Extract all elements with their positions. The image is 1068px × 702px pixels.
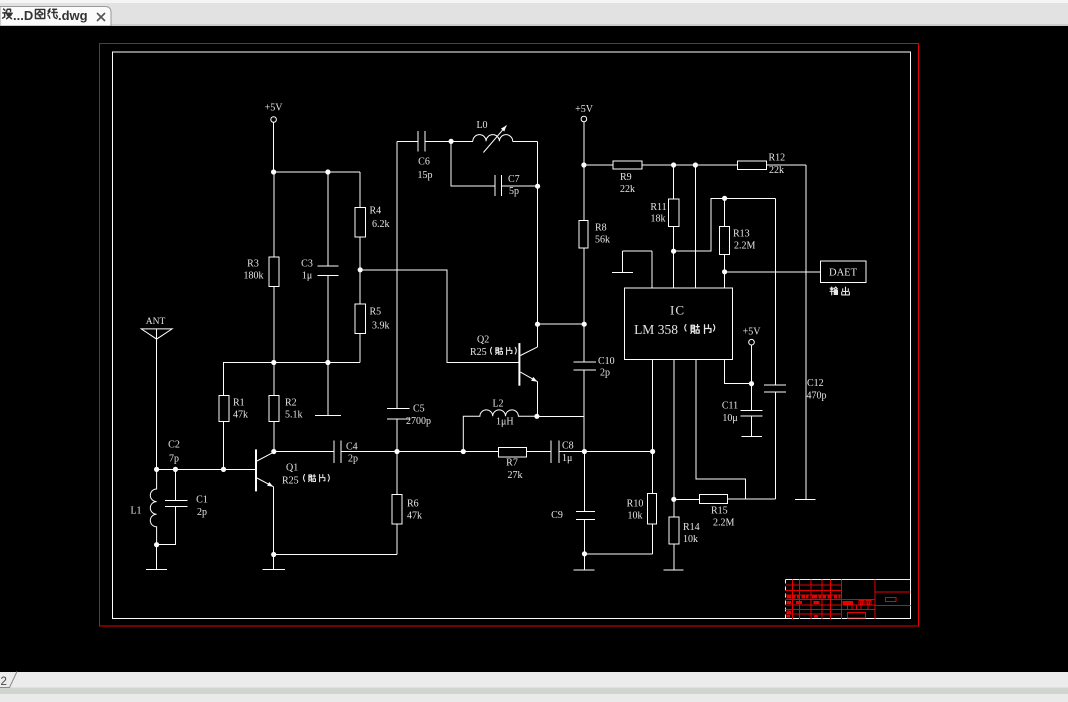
node junction <box>271 169 276 174</box>
resistor R8 <box>579 221 610 249</box>
capacitor C6 <box>418 131 433 181</box>
node junction Q2 emitter <box>534 414 539 419</box>
svg-text:56k: 56k <box>595 235 610 246</box>
wire +5V down <box>583 122 585 221</box>
svg-text:C1: C1 <box>196 495 208 506</box>
resistor R7 <box>498 448 526 482</box>
svg-text:C12: C12 <box>807 378 824 389</box>
node junction <box>271 360 276 365</box>
svg-text:R10: R10 <box>627 499 644 510</box>
svg-text:DAET: DAET <box>829 268 858 279</box>
Q1 label 贴片 <box>304 474 330 481</box>
wire IC pin to R14/R15 node <box>673 359 675 517</box>
active document tab <box>0 7 111 27</box>
svg-text:10k: 10k <box>628 511 643 522</box>
node junction <box>582 449 587 454</box>
wire R9 feed <box>584 164 613 166</box>
node junction <box>154 467 159 472</box>
svg-text:2p: 2p <box>197 507 207 518</box>
svg-text:R8: R8 <box>595 223 607 234</box>
svg-text:C2: C2 <box>168 440 180 451</box>
svg-text:5p: 5p <box>509 186 519 197</box>
IC label （贴片） <box>685 325 715 334</box>
node junction <box>173 467 178 472</box>
svg-text:C7: C7 <box>508 174 520 185</box>
svg-text:1μH: 1μH <box>496 417 514 428</box>
transistor Q1 <box>256 449 299 491</box>
wire Q1 base rail <box>157 468 256 470</box>
resistor R4 <box>355 206 389 237</box>
capacitor C9 <box>551 452 595 554</box>
svg-text:LM 358: LM 358 <box>634 322 678 337</box>
svg-text:IC: IC <box>670 303 685 318</box>
wire R13 leads <box>724 198 726 288</box>
wire output to DAET <box>725 271 821 273</box>
svg-text:2700p: 2700p <box>406 416 431 427</box>
node junction <box>582 322 587 327</box>
tab close button <box>97 13 105 21</box>
wire inverting input run <box>623 251 652 288</box>
wire R5 bottom rail <box>224 363 361 396</box>
wire tank loop right <box>501 141 537 324</box>
svg-text:10k: 10k <box>683 534 698 545</box>
inductor L2 <box>463 399 537 452</box>
svg-text:C4: C4 <box>346 442 358 453</box>
svg-text:18k: 18k <box>651 214 666 225</box>
resistor R13 <box>720 226 756 254</box>
AC ground stub below C3 <box>315 363 341 416</box>
power terminal +5V (left) <box>265 103 284 123</box>
wire R10 bottom lead <box>651 524 653 554</box>
node junction <box>693 162 698 167</box>
sheet tab 2 <box>0 672 17 689</box>
node junction <box>749 381 754 386</box>
svg-text:22k: 22k <box>769 165 784 176</box>
Q2 label 贴片 <box>491 347 517 354</box>
svg-text:R2: R2 <box>285 398 297 409</box>
svg-text:R14: R14 <box>683 522 700 533</box>
label 输出 <box>830 287 849 295</box>
node junction <box>671 162 676 167</box>
node junction <box>461 449 466 454</box>
svg-text:Q2: Q2 <box>477 335 489 346</box>
svg-text:2: 2 <box>1 676 7 688</box>
svg-text:1μ: 1μ <box>302 271 312 282</box>
capacitor C4 <box>334 441 358 465</box>
svg-text:2p: 2p <box>600 368 610 379</box>
svg-text:C9: C9 <box>551 510 563 521</box>
svg-text:R9: R9 <box>620 172 632 183</box>
AC ground stub <box>612 251 633 272</box>
svg-text:L1: L1 <box>130 506 141 517</box>
capacitor C10 <box>573 324 614 451</box>
node junction <box>582 551 587 556</box>
svg-text:2p: 2p <box>348 454 358 465</box>
node junction <box>535 184 540 189</box>
ground below L1 <box>146 545 167 570</box>
node junction <box>671 249 676 254</box>
wire R2 leads <box>273 363 275 452</box>
svg-text:R25: R25 <box>470 347 487 358</box>
wire +5V down to rail <box>273 122 275 172</box>
svg-text:R15: R15 <box>711 506 728 517</box>
wire R11 leads <box>673 165 675 288</box>
svg-text:R4: R4 <box>370 206 382 217</box>
svg-text:Q1: Q1 <box>286 463 298 474</box>
svg-text:C10: C10 <box>598 356 615 367</box>
svg-text:.dwg: .dwg <box>58 8 88 23</box>
wire Q2 collector rail <box>538 323 585 325</box>
svg-text:R13: R13 <box>733 229 750 240</box>
node junction Q1 collector <box>271 449 276 454</box>
wire IC pin column from R9 node <box>694 165 696 288</box>
node junction <box>722 196 727 201</box>
wire R15 right run <box>728 498 776 500</box>
svg-text:2.2M: 2.2M <box>713 518 735 529</box>
svg-text:R1: R1 <box>233 398 245 409</box>
svg-text:7p: 7p <box>169 454 179 465</box>
wire feedback run <box>674 198 776 251</box>
svg-text:C11: C11 <box>722 401 738 412</box>
white inner border <box>113 52 911 619</box>
wire to Q2 base column <box>360 270 519 363</box>
svg-text:5.1k: 5.1k <box>285 410 303 421</box>
svg-text:C5: C5 <box>413 404 425 415</box>
svg-text:+5V: +5V <box>743 327 762 338</box>
svg-text:15p: 15p <box>418 170 433 181</box>
svg-text:R12: R12 <box>769 153 786 164</box>
wire IC pin to R10 <box>652 359 654 493</box>
node junction <box>449 139 454 144</box>
svg-text:R25: R25 <box>282 476 299 487</box>
svg-text:+5V: +5V <box>575 104 594 115</box>
title block middle section details <box>843 601 854 605</box>
node junction <box>221 467 226 472</box>
wire R15 left lead <box>674 498 700 500</box>
resistor R15 <box>699 494 734 528</box>
wire ground rail left <box>274 554 397 556</box>
wire R6 leads <box>396 452 398 555</box>
resistor R1 <box>219 395 248 421</box>
wire IC pin step to R15 <box>696 359 745 499</box>
wire R3 leads <box>273 172 275 363</box>
wire signal rail y=451.5 <box>274 451 653 453</box>
wire top tank: C6 feed <box>397 140 473 142</box>
ground below Q1 <box>262 555 285 570</box>
svg-text:C8: C8 <box>562 441 574 452</box>
connector DAET <box>821 261 866 283</box>
svg-text:...D: ...D <box>13 8 33 23</box>
node junction <box>650 449 655 454</box>
node junction <box>671 497 676 502</box>
title block text blobs row <box>787 596 792 599</box>
wire R4 bottom lead <box>359 237 361 270</box>
svg-text:6.2k: 6.2k <box>372 219 390 230</box>
title block grid left section <box>786 585 876 614</box>
svg-text:R7: R7 <box>506 458 518 469</box>
wire IC pin to +5V node <box>725 359 752 383</box>
capacitor C8 <box>551 441 574 465</box>
node junction <box>271 552 276 557</box>
svg-text:L2: L2 <box>492 399 503 410</box>
wire tank loop left <box>451 141 495 186</box>
svg-text:C6: C6 <box>418 157 430 168</box>
wire top rail <box>274 171 361 173</box>
wire Q1 emitter down <box>272 487 274 555</box>
op-amp IC LM358 box <box>624 288 732 359</box>
svg-text:10μ: 10μ <box>722 413 737 424</box>
ground below C9 <box>574 554 595 570</box>
wire R12 right down <box>766 165 806 499</box>
node junction <box>325 169 330 174</box>
transistor Q2 <box>470 324 538 416</box>
power terminal +5V (middle) <box>575 104 594 122</box>
svg-text:47k: 47k <box>233 410 248 421</box>
node junction <box>325 360 330 365</box>
node junction <box>581 162 586 167</box>
ground below R14 <box>663 544 683 570</box>
svg-text:L0: L0 <box>476 120 487 131</box>
termination bar <box>795 498 816 500</box>
svg-text:2.2M: 2.2M <box>734 241 756 252</box>
capacitor C1 <box>157 469 208 544</box>
capacitor C5 <box>387 141 431 451</box>
capacitor C7 <box>495 174 520 197</box>
resistor R5 <box>355 304 389 333</box>
resistor R12 <box>738 153 786 177</box>
svg-text:R3: R3 <box>247 259 259 270</box>
node junction <box>358 267 363 272</box>
wire Q1 collector to node <box>273 451 275 454</box>
inductor L0 (variable) <box>473 120 538 153</box>
title block right section <box>875 592 910 606</box>
power terminal +5V (right) <box>743 327 762 384</box>
node junction <box>722 269 727 274</box>
resistor R10 <box>627 494 657 524</box>
svg-text:180k: 180k <box>244 271 264 282</box>
wire R9 to R12 <box>642 164 738 166</box>
svg-text:C3: C3 <box>301 259 313 270</box>
svg-text:R5: R5 <box>370 307 382 318</box>
title block outer white edges <box>786 579 911 581</box>
node junction <box>394 449 399 454</box>
svg-text:47k: 47k <box>407 511 422 522</box>
node junction <box>154 542 159 547</box>
resistor R3 <box>244 257 280 286</box>
wire R4 top lead <box>359 172 361 207</box>
capacitor C12 <box>764 198 826 499</box>
resistor R6 <box>392 495 422 524</box>
svg-text:ANT: ANT <box>146 317 166 327</box>
capacitor C11 <box>722 384 762 437</box>
svg-text:27k: 27k <box>508 470 523 481</box>
inductor L1 <box>130 469 156 544</box>
svg-text:470p: 470p <box>807 391 827 402</box>
capacitor C2 label <box>168 440 180 465</box>
resistor R14 <box>669 517 700 545</box>
svg-text:R6: R6 <box>407 499 419 510</box>
svg-text:3.9k: 3.9k <box>372 321 390 332</box>
resistor R2 <box>269 395 302 421</box>
wire R5 leads <box>359 270 361 363</box>
wire L2 to C10 column <box>537 415 584 417</box>
wire ground rail right <box>585 553 653 555</box>
svg-text:1μ: 1μ <box>562 453 572 464</box>
wire R1 bottom lead <box>223 422 225 470</box>
svg-text:R11: R11 <box>650 202 666 213</box>
resistor R9 <box>613 161 642 195</box>
red drawing frame <box>100 44 919 627</box>
resistor R11 <box>650 199 679 226</box>
antenna ANT <box>141 317 172 469</box>
capacitor C3 <box>301 172 338 363</box>
wire R8 bottom lead <box>583 248 585 324</box>
node junction <box>535 322 540 327</box>
svg-text:22k: 22k <box>620 184 635 195</box>
svg-text:+5V: +5V <box>265 103 284 114</box>
